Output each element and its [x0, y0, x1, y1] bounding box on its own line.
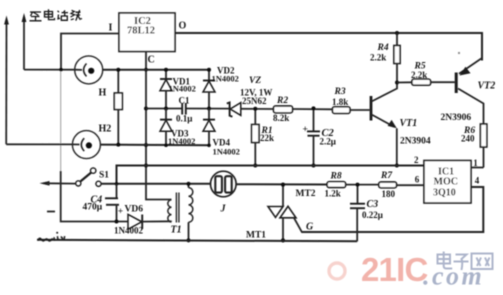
svg-text:1N4002: 1N4002: [212, 74, 239, 84]
node: C line on bridge mid rail: [144, 107, 148, 111]
svg-text:R4: R4: [377, 43, 389, 53]
svg-text:MT1: MT1: [246, 231, 266, 241]
wire: C common line from IC2 down: [145, 52, 147, 184]
node: VT1 emitter on pin2 rail: [395, 164, 399, 168]
svg-text:2.2k: 2.2k: [411, 70, 427, 80]
wire: bridge mid rail: [146, 108, 333, 111]
watermark 21IC.com logo: [329, 251, 493, 291]
svg-text:3Q10: 3Q10: [433, 188, 456, 199]
resistor R2 8.2k: [274, 106, 293, 113]
wire: faint vertical crease/line continuing down at x=61: [60, 70, 62, 171]
switch S1: [40, 168, 102, 186]
capacitor C1 0.1u: [182, 103, 186, 115]
wire: rail to IC1 pin 2: [117, 166, 425, 184]
piezo sounder J: [211, 171, 237, 197]
svg-text:R2: R2: [276, 96, 288, 106]
diode VD3 1N4002: [160, 109, 172, 146]
svg-text:C: C: [148, 55, 155, 66]
svg-text:J: J: [220, 204, 227, 215]
svg-text:R7: R7: [380, 171, 393, 181]
resistor R3 1.8k: [333, 107, 370, 114]
node: C line on pin2 rail: [144, 164, 148, 168]
svg-text:R3: R3: [334, 87, 346, 97]
svg-text:H: H: [99, 88, 107, 99]
node: C4 bottom junction: [115, 220, 119, 224]
node: VD2 bottom: [207, 107, 211, 111]
svg-text:240: 240: [461, 134, 475, 144]
resistor R8 1.2k: [327, 182, 346, 188]
diode VD2 1N4002: [203, 70, 215, 109]
wire: S1 to J and triac (MT2 wire): [101, 184, 424, 185]
transistor VT2 2N3906 (PNP): [456, 52, 483, 124]
svg-text:22k: 22k: [260, 133, 274, 143]
svg-text:1: 1: [473, 158, 478, 168]
label minus polarity: [47, 211, 55, 213]
svg-text:8.2k: 8.2k: [273, 113, 289, 123]
node: C line on H2 rail: [144, 143, 148, 147]
resistor R6 240: [480, 124, 486, 168]
zener diode VZ: [227, 103, 241, 117]
node: secondary top on S1 wire: [186, 182, 190, 186]
svg-text:MOC: MOC: [434, 177, 458, 188]
svg-text:25N62: 25N62: [242, 96, 267, 106]
transformer T1: [146, 184, 193, 241]
svg-text:G: G: [306, 222, 314, 233]
svg-text:MT2: MT2: [296, 189, 316, 199]
svg-text:H2: H2: [99, 124, 112, 135]
node: S1 wire / C4 branch: [115, 182, 119, 186]
svg-text:VD6: VD6: [125, 205, 144, 215]
node: VD1 top: [164, 68, 168, 72]
resistor R5 2.2k: [397, 79, 455, 85]
wire: phone line lead 1 (arrow up): [4, 16, 9, 145]
svg-text:+: +: [118, 207, 123, 217]
node: C2 top: [312, 106, 316, 110]
artifact: handwriting smudge at rail end: [38, 236, 65, 241]
svg-text:6: 6: [415, 175, 420, 185]
svg-text:1.8k: 1.8k: [332, 97, 348, 107]
node: I wire joins H rail: [59, 68, 63, 72]
svg-text:1N4002: 1N4002: [213, 147, 240, 157]
wire: H2 rail (bottom telephone rail / bridge bottom): [6, 144, 209, 145]
svg-text:C1: C1: [179, 96, 190, 106]
capacitor C4 470u electrolytic: [105, 184, 119, 222]
node: secondary bottom on MT1 rail: [186, 238, 190, 242]
wire: input I from phone line to IC2: [61, 34, 119, 70]
node: VD2 top: [207, 68, 211, 72]
resistor R4 2.2k: [394, 33, 400, 83]
svg-text:0.1μ: 0.1μ: [176, 114, 192, 124]
svg-text:.com: .com: [423, 262, 484, 291]
svg-text:+: +: [303, 125, 308, 135]
resistor (unlabeled) between H rails: [114, 70, 122, 145]
svg-text:VZ: VZ: [249, 76, 261, 86]
svg-text:VT2: VT2: [478, 81, 496, 92]
label: 至电话线 (to telephone line): [30, 9, 82, 20]
node: resistor top on H rail: [116, 68, 120, 72]
node: R1 top: [253, 107, 257, 111]
wire: bottom rail MT1: [37, 240, 357, 242]
resistor R7 180: [379, 182, 397, 188]
IC2 78L12 regulator: [119, 13, 175, 52]
diode VD1 1N4002: [160, 70, 172, 109]
receiver H (earpiece symbol): [75, 56, 103, 84]
svg-text:O: O: [179, 21, 187, 32]
svg-text:21IC: 21IC: [361, 251, 428, 288]
wire: H rail (top telephone rail): [24, 69, 209, 71]
svg-text:C3: C3: [367, 199, 379, 210]
wire: output branch down to VD6 wire: [61, 171, 128, 222]
svg-text:4: 4: [475, 176, 480, 186]
wire: phone line lead 2 (arrow up): [22, 13, 27, 70]
capacitor C2 2.2u electrolytic: [307, 108, 320, 165]
svg-text:2N3904: 2N3904: [400, 137, 431, 147]
node: VD4 bottom: [207, 144, 211, 148]
node: C3 top: [356, 183, 360, 187]
svg-text:0.22μ: 0.22μ: [362, 210, 383, 220]
triac: [268, 185, 302, 241]
wire: O output rail to top right: [175, 33, 482, 61]
svg-text:1N4002: 1N4002: [168, 136, 195, 146]
svg-text:T1: T1: [171, 225, 182, 236]
node: R4 bottom / R5 / VT1 collector junction: [395, 81, 399, 85]
svg-text:78L12: 78L12: [127, 26, 155, 37]
svg-text:2.2μ: 2.2μ: [320, 137, 336, 147]
svg-text:1.2k: 1.2k: [325, 189, 341, 199]
receiver H2 (earpiece symbol): [72, 131, 100, 159]
diode VD6 1N4002: [128, 214, 172, 229]
diode VD4 1N4002: [203, 109, 215, 146]
capacitor C3 0.22u: [350, 185, 365, 242]
resistor R1 22k: [252, 109, 259, 166]
node: R1 bottom: [253, 164, 257, 168]
svg-text:2: 2: [414, 155, 419, 165]
IC1 MOC3Q10 optocoupler: [424, 161, 471, 204]
transistor VT1 2N3904 (NPN): [371, 83, 397, 166]
node: resistor bottom on H2 rail: [116, 143, 120, 147]
node: C line on H rail: [144, 68, 148, 72]
svg-text:180: 180: [382, 189, 396, 199]
svg-text:470μ: 470μ: [83, 203, 103, 213]
svg-text:R8: R8: [330, 172, 342, 182]
svg-text:1N4002: 1N4002: [114, 226, 143, 236]
node: triac MT2 on S1/J wire: [281, 183, 285, 187]
node: C2 bottom: [312, 164, 316, 168]
svg-text:2.2k: 2.2k: [370, 53, 386, 63]
svg-text:I: I: [109, 23, 113, 34]
node: triac MT1 on bottom rail: [281, 238, 285, 242]
svg-text:1N4002: 1N4002: [169, 84, 196, 94]
wire: IC1 pin1 to R6: [471, 167, 484, 169]
svg-text:VT1: VT1: [400, 118, 418, 129]
node: R4 top junction: [395, 31, 399, 35]
svg-text:S1: S1: [99, 171, 109, 181]
node: VD1 bottom: [164, 107, 168, 111]
node: VD3 bottom: [164, 143, 168, 147]
wire: IC1 pin4 to triac gate: [301, 187, 483, 232]
svg-text:2N3906: 2N3906: [441, 113, 472, 123]
